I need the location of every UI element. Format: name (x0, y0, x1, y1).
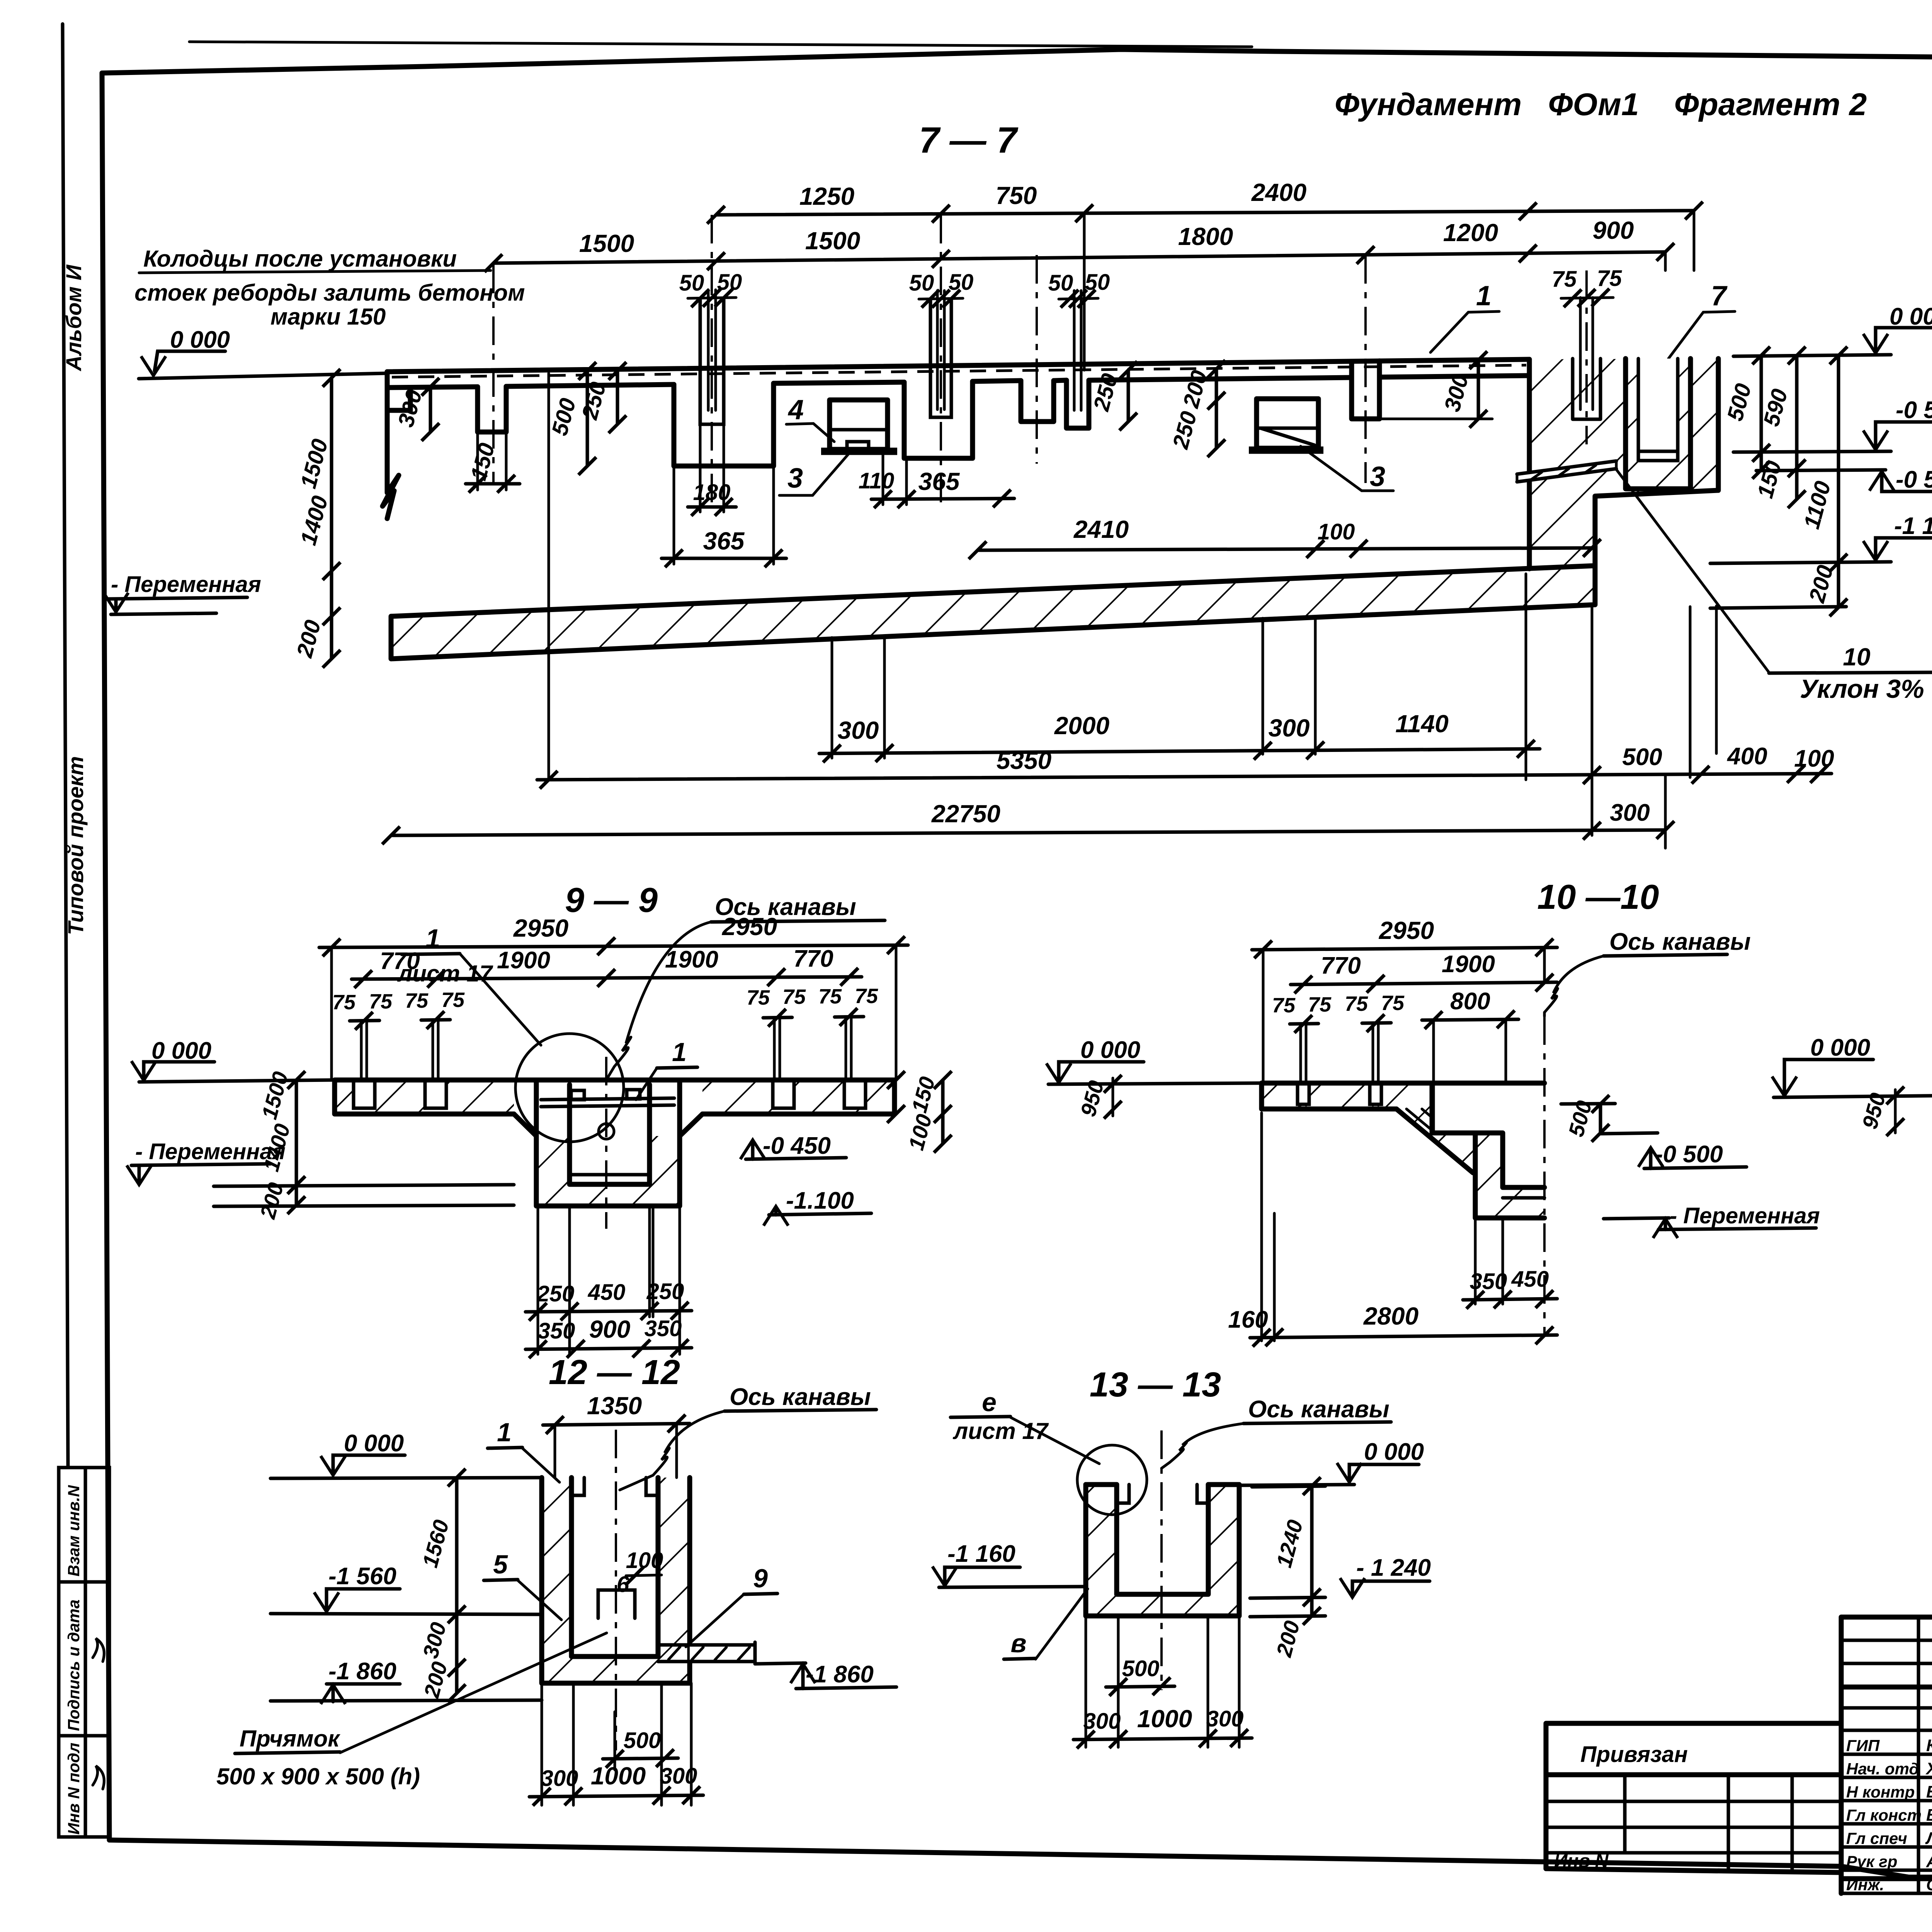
dim 350/450 (1475, 1218, 1503, 1304)
frame left border (102, 73, 109, 1840)
svg-text:9 — 9: 9 — 9 (565, 881, 658, 920)
svg-text:1000: 1000 (1137, 1705, 1192, 1733)
svg-text:Нач. отд: Нач. отд (1846, 1760, 1919, 1778)
svg-text:800: 800 (1450, 988, 1490, 1015)
dim 500 (603, 1758, 678, 1759)
svg-text:2950: 2950 (722, 913, 777, 940)
centerline (1543, 1016, 1546, 1337)
left stamp table (59, 1468, 109, 1837)
anchor bolts W5 (1074, 291, 1081, 410)
frame bottom border (109, 1840, 1932, 1877)
svg-text:110: 110 (859, 468, 894, 493)
svg-text:е: е (982, 1388, 997, 1417)
svg-text:1200: 1200 (1443, 219, 1498, 247)
svg-text:300: 300 (1269, 714, 1310, 742)
dim 110/365 right of B1 (883, 454, 906, 505)
svg-text:7 — 7: 7 — 7 (919, 120, 1019, 161)
svg-text:22750: 22750 (931, 800, 1000, 828)
svg-text:-1.100: -1.100 (786, 1187, 854, 1214)
svg-text:75: 75 (782, 985, 806, 1009)
title block outer (1841, 1617, 1932, 1879)
svg-text:770: 770 (793, 946, 833, 972)
svg-text:900: 900 (589, 1315, 631, 1343)
svg-text:75: 75 (1345, 992, 1368, 1015)
anchor slot in massif (1573, 359, 1600, 419)
dim 50-50 at W5 (1059, 298, 1098, 299)
right concrete massif (1529, 359, 1718, 569)
svg-text:1900: 1900 (665, 946, 718, 973)
centerline W6 (1364, 255, 1367, 483)
dim row 300/2000/300/1140 (819, 749, 1540, 753)
svg-text:250: 250 (537, 1281, 575, 1306)
svg-text:400: 400 (1726, 743, 1767, 770)
dim 300/1000/300 (529, 1795, 703, 1797)
svg-text:100: 100 (626, 1548, 663, 1573)
dim 300 slab left (429, 387, 432, 432)
svg-text:1: 1 (497, 1418, 512, 1447)
svg-text:0 000: 0 000 (1810, 1034, 1870, 1061)
privyazan table (1546, 1723, 1841, 1872)
svg-text:Винклер: Винклер (1926, 1806, 1932, 1825)
svg-text:1000: 1000 (591, 1762, 646, 1790)
pit walls hatch (542, 1478, 571, 1683)
dim 250/450/250 (526, 1311, 692, 1312)
svg-text:10 —10: 10 —10 (1537, 878, 1659, 917)
svg-text:1350: 1350 (587, 1392, 642, 1420)
svg-text:Подпись и дата: Подпись и дата (65, 1600, 83, 1731)
dim row 5350/500/400/100 (537, 774, 1832, 780)
svg-text:Колодцы после установки: Колодцы после установки (143, 246, 457, 272)
svg-text:2000: 2000 (1054, 712, 1109, 740)
right dim 1240/200 (1310, 1486, 1314, 1616)
svg-text:Кирсанов: Кирсанов (1926, 1736, 1932, 1755)
recess step (1432, 1083, 1475, 1133)
svg-text:Гл конст: Гл конст (1846, 1806, 1922, 1824)
centerline (605, 1057, 607, 1229)
dim 1350 (543, 1423, 690, 1425)
svg-text:- Переменная: - Переменная (111, 572, 261, 597)
svg-text:450: 450 (1511, 1267, 1549, 1292)
svg-text:Инж.: Инж. (1846, 1876, 1884, 1894)
inner notch (1117, 1485, 1208, 1503)
upper small rows (1841, 1640, 1932, 1708)
svg-text:1800: 1800 (1178, 223, 1233, 250)
pit outline (1086, 1485, 1239, 1616)
outer left paper line (63, 24, 68, 1468)
dim 365 under W2 (674, 466, 774, 564)
svg-text:-1 560: -1 560 (328, 1563, 396, 1590)
anchor slot in W2 (700, 299, 724, 424)
svg-text:365: 365 (918, 468, 960, 495)
inner step (598, 1590, 635, 1618)
anchor bolts (361, 1017, 851, 1106)
svg-text:- 1 240: - 1 240 (1356, 1554, 1431, 1581)
anchor bolts W3 (937, 291, 944, 410)
svg-text:300: 300 (838, 716, 879, 744)
svg-text:770: 770 (380, 948, 420, 975)
dim 300/1000/300 (1073, 1738, 1252, 1740)
svg-text:50: 50 (949, 270, 974, 295)
slab bottom segments (387, 376, 1529, 388)
well W4 (1021, 381, 1054, 422)
dim 150 under W1 (478, 432, 506, 490)
svg-text:75: 75 (441, 988, 465, 1012)
svg-text:75: 75 (1552, 267, 1577, 292)
leader to slope note (1616, 469, 1769, 672)
svg-text:3: 3 (1370, 461, 1385, 492)
signature table columns (1918, 1617, 1932, 1893)
channel left wall (1475, 1133, 1503, 1218)
dim 50-50 at W2 (688, 298, 736, 298)
svg-text:450: 450 (588, 1280, 626, 1305)
frame top border (102, 49, 1932, 73)
svg-text:75: 75 (855, 985, 878, 1008)
75 tick lines (350, 1017, 864, 1021)
svg-text:Ось канавы: Ось канавы (1248, 1396, 1389, 1423)
svg-text:7: 7 (1711, 281, 1728, 311)
right vertical dim 950 (1104, 1075, 1122, 1093)
svg-text:1: 1 (425, 924, 440, 953)
block B1 pos.4 (830, 400, 888, 449)
centerline W4 (1036, 255, 1038, 464)
svg-text:1: 1 (1476, 281, 1492, 311)
block B2 base plate (1249, 447, 1323, 454)
svg-text:300: 300 (541, 1766, 578, 1791)
svg-text:-0 450: -0 450 (763, 1133, 831, 1159)
svg-text:75: 75 (332, 991, 356, 1014)
inner corner notches (571, 1478, 658, 1495)
svg-text:75: 75 (818, 985, 842, 1008)
dim 50-50 at W3 (919, 298, 963, 299)
left vertical dim 1500/1400/200 (295, 1080, 298, 1205)
svg-text:75: 75 (1308, 993, 1332, 1016)
centerline (1160, 1430, 1163, 1690)
left break edge (383, 372, 399, 519)
svg-text:500 х 900 х 500 (h): 500 х 900 х 500 (h) (216, 1764, 420, 1789)
svg-text:Ось канавы: Ось канавы (730, 1384, 871, 1410)
long level lines (214, 1185, 514, 1186)
channel bottom slab (1503, 1187, 1544, 1218)
svg-text:Сапрошина: Сапрошина (1926, 1876, 1932, 1894)
svg-text:Винклер: Винклер (1926, 1782, 1932, 1801)
svg-text:0 000: 0 000 (1364, 1439, 1424, 1465)
svg-text:-1 860: -1 860 (328, 1658, 396, 1685)
header row line full width (1841, 1685, 1932, 1690)
bottom ext verticals (538, 1206, 680, 1354)
svg-text:Рук гр: Рук гр (1846, 1852, 1897, 1871)
dim 350/900/350 (526, 1348, 692, 1349)
dim 500 (1106, 1686, 1175, 1687)
svg-text:Типовой проект: Типовой проект (63, 756, 88, 935)
pit floor hatched band (391, 566, 1595, 659)
svg-text:12 — 12: 12 — 12 (549, 1353, 680, 1392)
dim 2410 / 100 (978, 548, 1592, 550)
svg-text:Н контр: Н контр (1846, 1783, 1915, 1801)
svg-text:50: 50 (679, 270, 704, 296)
svg-text:1500: 1500 (579, 230, 634, 257)
dim 770/1900 (1291, 982, 1557, 985)
detail circle (1077, 1445, 1147, 1515)
axis leader squiggle (607, 922, 711, 1078)
well white-outs (1298, 1083, 1309, 1104)
svg-text:Инв N: Инв N (1554, 1851, 1609, 1871)
svg-text:Привязан: Привязан (1580, 1742, 1688, 1767)
svg-text:350: 350 (1470, 1269, 1507, 1294)
haunches (514, 1114, 702, 1136)
svg-text:Хрупало: Хрупало (1925, 1759, 1932, 1778)
svg-text:0 000: 0 000 (1080, 1037, 1140, 1063)
dim 800 (1422, 1019, 1519, 1020)
svg-text:180: 180 (693, 480, 731, 505)
dim 300 at W6 (1477, 360, 1480, 419)
channel outline (536, 1080, 680, 1206)
dim 2950/2950 (319, 945, 908, 947)
svg-text:300: 300 (660, 1764, 697, 1789)
anchor slot in W3 (930, 300, 951, 417)
svg-text:4: 4 (787, 395, 804, 425)
svg-text:1140: 1140 (1395, 710, 1449, 738)
bottom dim 160/2800 (1262, 1113, 1274, 1341)
well recess white-outs (354, 1080, 375, 1108)
top dim line 1 (716, 211, 1694, 215)
svg-text:марки 150: марки 150 (270, 304, 386, 330)
extension verticals from dim to slab (332, 945, 896, 1080)
left vertical dims 1560/300/200 (455, 1478, 459, 1693)
left dim chain 1500/1400/200 (330, 378, 333, 659)
bottom ext verticals (542, 1683, 691, 1805)
dim 500 left of W2 (586, 371, 589, 466)
svg-text:-0 500: -0 500 (1655, 1141, 1723, 1168)
centerline W1 (492, 265, 495, 483)
svg-text:Альбом Й: Альбом Й (61, 264, 86, 372)
dim 250 left of W2 (616, 371, 619, 424)
bottom ext verticals (1086, 1616, 1239, 1747)
well W6 (1352, 361, 1379, 419)
svg-text:в: в (1010, 1629, 1026, 1658)
anchor bolts W2 (708, 290, 716, 410)
channel walls hatch (536, 1136, 570, 1206)
svg-text:300: 300 (1206, 1706, 1244, 1731)
signature rows (1841, 1730, 1932, 1870)
svg-text:500: 500 (1622, 744, 1662, 770)
block B1 base plate (821, 448, 897, 455)
dim 500 right (1599, 1104, 1602, 1133)
right vertical dims (1760, 355, 1763, 470)
svg-text:Фундамент ФОм1 Фрагмент 2: Фундамент ФОм1 Фрагмент 2 (1335, 87, 1867, 122)
svg-text:9: 9 (753, 1564, 768, 1593)
dim 180 under W2 slot (700, 424, 724, 512)
channel pos.2 walls (1626, 359, 1690, 489)
svg-text:-1 100: -1 100 (1894, 513, 1932, 539)
svg-text:1500: 1500 (805, 227, 860, 255)
leader to circle (460, 954, 541, 1045)
svg-text:1250: 1250 (799, 182, 854, 210)
svg-text:365: 365 (703, 527, 745, 555)
haunch slope (1396, 1109, 1473, 1173)
well outlines (354, 1080, 866, 1108)
svg-text:75: 75 (405, 989, 429, 1012)
svg-text:500: 500 (624, 1728, 661, 1753)
svg-text:2800: 2800 (1363, 1302, 1418, 1330)
waterproofing dashed line (392, 365, 1526, 377)
svg-text:350: 350 (538, 1318, 575, 1344)
bolts (1301, 1023, 1378, 1105)
svg-text:5350: 5350 (997, 747, 1051, 774)
svg-text:750: 750 (996, 182, 1037, 209)
svg-text:50: 50 (717, 270, 742, 295)
svg-text:1: 1 (672, 1037, 687, 1067)
well W1 (478, 386, 506, 432)
svg-text:900: 900 (1593, 216, 1634, 244)
svg-text:Гл спеч: Гл спеч (1846, 1829, 1907, 1847)
svg-text:50: 50 (1085, 270, 1110, 295)
well W2 (674, 383, 774, 466)
note underline (139, 270, 491, 273)
slab outline (335, 1080, 895, 1114)
well W5 (1066, 380, 1089, 428)
slab top line (387, 359, 1529, 372)
drain pipe (1517, 461, 1616, 482)
svg-text:-1 860: -1 860 (806, 1661, 874, 1688)
pit floor level line right (1710, 607, 1846, 608)
svg-text:300: 300 (1083, 1709, 1121, 1734)
svg-text:75: 75 (1597, 266, 1622, 291)
paper top edge (189, 42, 1252, 47)
svg-text:стоек реборды залить бетоно: стоек реборды залить бетоном (134, 280, 525, 306)
slab hatched (335, 1080, 895, 1114)
svg-text:3: 3 (787, 463, 803, 494)
svg-text:Алехова: Алехова (1926, 1852, 1932, 1871)
svg-text:500: 500 (1122, 1656, 1160, 1681)
svg-text:100: 100 (1794, 745, 1834, 772)
svg-text:75: 75 (369, 990, 393, 1013)
svg-text:-0 500: -0 500 (1896, 397, 1932, 423)
svg-text:0 000: 0 000 (344, 1430, 404, 1457)
level line 0.000 (139, 373, 387, 379)
svg-text:350: 350 (645, 1316, 682, 1341)
svg-text:300: 300 (1610, 799, 1650, 826)
svg-text:50: 50 (1048, 270, 1073, 296)
pit outline (542, 1478, 690, 1683)
top dim line 2 (493, 252, 1665, 263)
svg-text:13 — 13: 13 — 13 (1090, 1366, 1221, 1404)
centerline W3 (940, 215, 942, 502)
svg-text:10: 10 (1843, 643, 1870, 671)
svg-text:0 000: 0 000 (170, 327, 230, 353)
dim 2950 (1252, 947, 1557, 950)
svg-text:2950: 2950 (1379, 917, 1434, 944)
svg-text:Лисичкин: Лисичкин (1925, 1829, 1932, 1848)
svg-text:160: 160 (1228, 1306, 1268, 1333)
central channel zone white (514, 1080, 702, 1115)
channel recess white (1626, 359, 1690, 489)
dim 770/1900/1900/770 (352, 977, 862, 979)
svg-text:Взам инв.N: Взам инв.N (65, 1485, 83, 1577)
svg-text:Уклон 3%: Уклон 3% (1800, 674, 1924, 704)
centerline (615, 1430, 617, 1750)
svg-text:1900: 1900 (497, 947, 550, 974)
svg-text:100: 100 (1318, 519, 1355, 544)
slab hatched (1262, 1083, 1432, 1109)
slab outline (1262, 1083, 1544, 1109)
left vertical dim 950 (1894, 1090, 1897, 1133)
drain pipe right (690, 1642, 755, 1662)
svg-text:75: 75 (747, 986, 770, 1009)
svg-text:75: 75 (1272, 994, 1296, 1017)
centerline massif anchor (1585, 270, 1588, 444)
well W3 (904, 381, 973, 458)
svg-text:75: 75 (1381, 992, 1405, 1015)
svg-text:-1 160: -1 160 (947, 1541, 1015, 1567)
block B2 pos.3 (1257, 399, 1318, 448)
svg-text:2950: 2950 (513, 914, 568, 942)
svg-text:ГИП: ГИП (1846, 1736, 1880, 1755)
svg-text:5: 5 (493, 1550, 508, 1579)
right dims 150/100 (887, 1071, 905, 1089)
detail circle (515, 1034, 624, 1142)
rail detail at channel top (541, 1098, 674, 1107)
svg-text:- Переменная: - Переменная (1670, 1203, 1820, 1228)
dim row 22750/300 (391, 830, 1665, 835)
svg-text:250: 250 (646, 1279, 684, 1304)
svg-text:1900: 1900 (1442, 951, 1495, 978)
extension verticals top (1084, 212, 1694, 370)
svg-text:770: 770 (1321, 952, 1361, 979)
svg-text:Ось канавы: Ось канавы (1609, 929, 1751, 955)
svg-text:6: 6 (617, 1572, 629, 1597)
svg-text:Прчямок: Прчямок (240, 1726, 340, 1752)
svg-text:2410: 2410 (1073, 515, 1129, 543)
long extension verticals (549, 373, 1716, 848)
svg-text:50: 50 (909, 270, 934, 296)
slab edge beam step (387, 388, 410, 410)
svg-text:-0 590: -0 590 (1896, 466, 1932, 493)
svg-text:Инв N подл: Инв N подл (65, 1743, 83, 1835)
svg-text:2400: 2400 (1251, 179, 1306, 206)
level line peremennaya (111, 613, 216, 614)
pit walls hatch (1086, 1485, 1117, 1616)
centerline W2 (711, 215, 713, 502)
